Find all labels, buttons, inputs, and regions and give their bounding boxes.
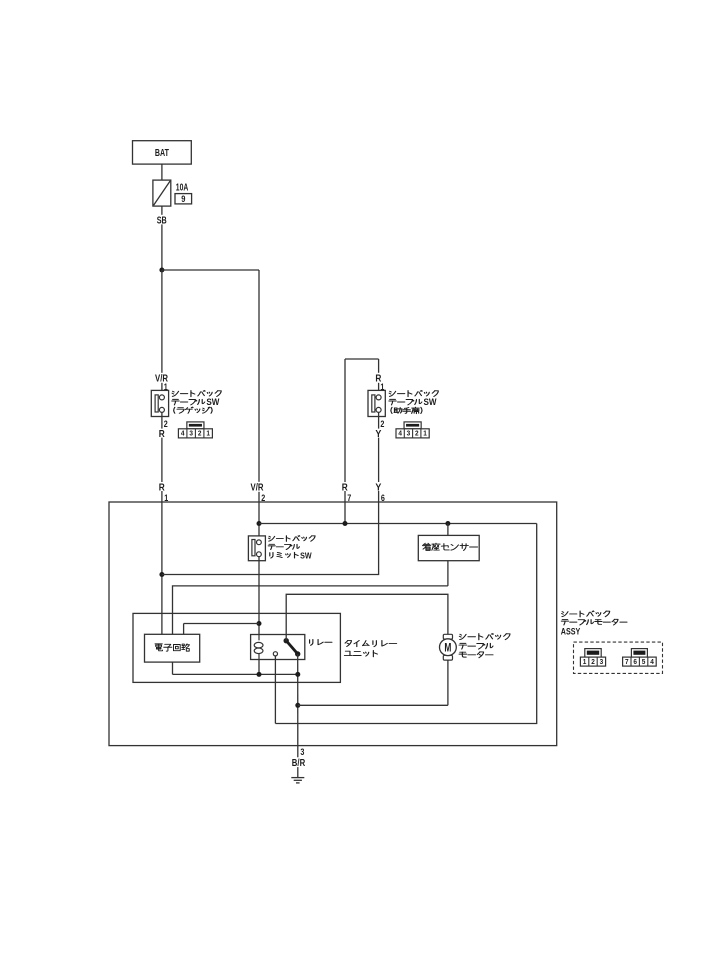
label SB (156, 215, 168, 225)
label R upper passenger switch wire (375, 373, 382, 383)
wire pin7 to bus (344, 502, 346, 524)
ground symbol (291, 778, 304, 783)
svg-text:6: 6 (633, 657, 637, 666)
svg-text:SW: SW (424, 397, 437, 407)
relay movable contact arm (284, 638, 289, 643)
svg-text:R: R (159, 482, 166, 493)
connector symbol 7-6-5-4 of motor ASSY (631, 649, 647, 658)
svg-text:Y: Y (375, 482, 381, 493)
connector symbol 4-3-2-1 for luggage switch (187, 422, 204, 429)
wire pin1 down into electronic circuit (161, 502, 163, 634)
wire V/R branch down to unit pin 2 (258, 270, 260, 502)
junction pin1 / pin6 wires (159, 572, 164, 577)
svg-text:R: R (159, 429, 166, 440)
junction motor return (295, 703, 300, 708)
label: seat back table motor ASSY (562, 611, 610, 617)
relay coil (254, 635, 263, 660)
limit switch: seat back table limit SW (248, 536, 265, 561)
label R above unit pin 7 (341, 482, 348, 491)
svg-text:3: 3 (407, 429, 411, 438)
junction seat sensor on bus (445, 521, 450, 526)
connector symbol 1-2-3 of motor ASSY (585, 649, 601, 658)
svg-text:9: 9 (181, 194, 185, 204)
wire down to seat back table SW (passenger) pin 1 (378, 359, 380, 395)
svg-text:3: 3 (300, 747, 304, 758)
right rail wire bus to relay contact return (275, 524, 536, 724)
wire fuse to junction, SB label on it (161, 206, 163, 270)
wire down to unit pin 7, label R on it (344, 359, 346, 502)
wire motor bottom return (298, 704, 448, 706)
svg-text:6: 6 (381, 493, 385, 504)
label V/R upper left wire (155, 373, 169, 383)
wire seat sensor to electronic circuit (173, 586, 448, 634)
svg-text:B/R: B/R (292, 758, 306, 769)
svg-text:2: 2 (198, 429, 202, 438)
wire seat sensor bottom (447, 561, 449, 586)
label Y below passenger switch (375, 429, 382, 438)
pin 2 of seat back table SW (passenger) (381, 419, 386, 427)
wire jog at top of passenger switch branch (345, 358, 379, 360)
label: seat back table SW (passenger) text (389, 390, 438, 396)
wire stub into electronic circuit top right (183, 624, 185, 635)
junction closed contact / ground bus (295, 672, 300, 677)
fuse number box 9 (175, 194, 192, 204)
svg-text:3: 3 (189, 429, 193, 438)
svg-text:3: 3 (600, 657, 604, 666)
junction pin2 distribution bus (257, 521, 262, 526)
wire relay common contact to motor top (286, 594, 448, 640)
svg-text:1: 1 (206, 429, 210, 438)
pin 1 of seat back table SW (luggage) (164, 382, 169, 390)
wire BAT to fuse (161, 164, 163, 180)
switch: seat back table SW (luggage) (151, 390, 168, 416)
svg-text:7: 7 (347, 493, 351, 504)
svg-text:SW: SW (300, 550, 312, 560)
svg-text:1: 1 (423, 429, 427, 438)
switch: seat back table SW (passenger) (368, 390, 385, 416)
label: time relay unit (345, 640, 397, 646)
wire closed contact down to pin 3 (297, 654, 299, 746)
svg-text:M: M (444, 643, 451, 655)
connector symbol 4-3-2-1 for passenger switch (404, 422, 421, 429)
svg-text:1: 1 (583, 657, 587, 666)
time relay unit outer box (109, 502, 557, 746)
label B/R (292, 757, 306, 767)
svg-text:SW: SW (206, 397, 219, 407)
label R above unit pin 1 (158, 482, 165, 491)
label V/R above unit pin 2 (250, 482, 264, 492)
svg-text:2: 2 (415, 429, 419, 438)
svg-text:R: R (342, 482, 349, 493)
relay open contact terminal (273, 652, 277, 656)
pin 1 of seat back table SW (passenger) (381, 382, 386, 390)
wire down to seat back table SW (luggage) pin 1 (161, 270, 163, 395)
svg-text:4: 4 (398, 429, 402, 438)
wire pin6 to junction with pin1 (162, 502, 379, 575)
wire ground bus under relay (173, 673, 298, 675)
svg-text:ASSY: ASSY (561, 626, 581, 637)
svg-text:7: 7 (625, 657, 629, 666)
label: seat back table limit SW (269, 536, 316, 542)
wire open contact down to right rail return (274, 656, 276, 724)
svg-text:4: 4 (650, 657, 654, 666)
pin 2 of seat back table SW (luggage) (164, 419, 169, 427)
wire SW pin2 down to unit pin 1, labels R on it (161, 412, 163, 502)
relay box (251, 635, 305, 660)
junction battery feed split (159, 268, 164, 273)
svg-text:SB: SB (157, 215, 167, 226)
time relay unit inner box (133, 613, 340, 682)
label: seat back table motor (459, 633, 510, 639)
wire electronic circuit bottom (172, 662, 174, 674)
label: seat sensor (422, 543, 477, 550)
svg-text:BAT: BAT (155, 147, 169, 159)
fuse 10A (153, 180, 171, 206)
svg-text:1: 1 (164, 493, 169, 504)
junction pin7 on bus (343, 521, 348, 526)
bus wire from pin2 to right rail (259, 523, 537, 525)
svg-text:5: 5 (642, 657, 646, 666)
motor: seat back table motor (443, 634, 452, 639)
seat sensor box (418, 535, 479, 560)
wire bus down to seat sensor (447, 524, 449, 536)
battery BAT (133, 141, 192, 164)
svg-text:2: 2 (591, 657, 595, 666)
wire passenger SW pin2 down to unit pin 6, label Y on it (378, 412, 380, 502)
label: seat back table SW (luggage) text (172, 390, 221, 396)
wire electronic circuit to coil feed junction (184, 623, 259, 625)
wire pin2 down to limit SW (258, 502, 260, 540)
wire pin 3 to ground, label B/R on it (297, 746, 299, 778)
label R below luggage switch (158, 429, 165, 438)
svg-text:2: 2 (261, 493, 265, 504)
wire limit SW down to relay coil (258, 557, 260, 635)
svg-text:V/R: V/R (251, 482, 265, 493)
svg-text:Y: Y (375, 429, 381, 440)
wire coil bottom to ground bus (258, 660, 260, 675)
label Y above unit pin 6 (375, 482, 382, 491)
motor ASSY connector group (dashed) (574, 642, 663, 673)
label: electronic circuit (155, 644, 189, 651)
junction coil bottom on ground bus (257, 672, 262, 677)
junction coil feed / electronic circuit (257, 621, 262, 626)
svg-text:4: 4 (181, 429, 185, 438)
electronic circuit box (145, 634, 200, 662)
svg-text:10A: 10A (176, 182, 189, 193)
wire motor bottom down (447, 660, 449, 705)
label: relay (310, 639, 332, 645)
wire branch to V/R drop (162, 269, 259, 271)
